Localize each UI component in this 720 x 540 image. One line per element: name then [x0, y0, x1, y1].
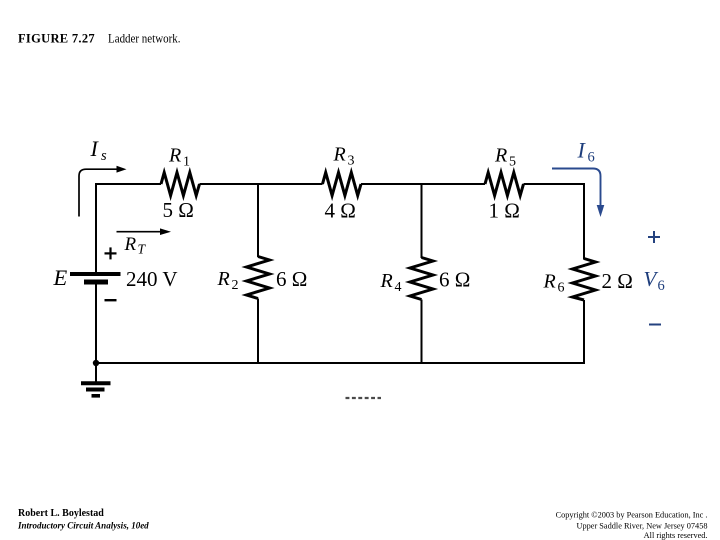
label I6 — [577, 138, 595, 166]
V6 plus sign — [648, 231, 660, 243]
label R1 — [168, 145, 190, 170]
label R2 — [217, 268, 239, 293]
svg-text:6: 6 — [658, 278, 665, 294]
label R3 — [333, 144, 355, 169]
wire R2 branch upper — [257, 183, 259, 257]
value 6 ohm R2 — [276, 267, 307, 291]
label R6 — [543, 271, 565, 296]
resistor R3 — [323, 173, 362, 196]
value 4 ohm — [325, 199, 356, 223]
label RT — [124, 234, 147, 257]
svg-text:4: 4 — [395, 280, 402, 295]
node ground junction dot — [93, 360, 99, 366]
current arrow Is — [79, 166, 127, 217]
svg-text:6: 6 — [588, 150, 595, 166]
value 6 ohm R4 — [439, 268, 470, 292]
svg-text:R: R — [124, 234, 137, 255]
svg-text:R: R — [494, 145, 507, 167]
resistor R2 — [247, 257, 270, 299]
svg-text:R: R — [168, 145, 181, 167]
battery E short plate — [84, 280, 108, 285]
svg-text:1: 1 — [183, 155, 190, 170]
wire top rail segment R1-R3 — [200, 183, 323, 185]
ground — [81, 363, 111, 396]
value 1 ohm — [489, 199, 520, 223]
svg-text:Upper Saddle River, New Jersey: Upper Saddle River, New Jersey 07458 — [576, 522, 707, 531]
svg-text:5: 5 — [509, 155, 516, 170]
wire top rail left segment — [95, 183, 161, 185]
svg-text:R: R — [543, 271, 556, 293]
svg-text:FIGURE 7.27Ladder network.: FIGURE 7.27Ladder network. — [18, 32, 181, 46]
svg-text:V: V — [644, 267, 659, 291]
svg-text:5 Ω: 5 Ω — [163, 198, 194, 222]
wire top rail right segment — [524, 183, 586, 185]
value 5 ohm — [163, 198, 194, 222]
svg-text:All rights reserved.: All rights reserved. — [644, 531, 708, 540]
svg-text:2: 2 — [232, 278, 239, 293]
svg-text:3: 3 — [348, 154, 355, 169]
svg-text:Robert L. Boylestad: Robert L. Boylestad — [18, 508, 104, 519]
battery E long plate — [70, 272, 121, 276]
label Is — [90, 136, 108, 164]
svg-text:Introductory Circuit Analysis,: Introductory Circuit Analysis, 10ed — [17, 521, 149, 531]
svg-text:4 Ω: 4 Ω — [325, 199, 356, 223]
battery plus sign — [105, 247, 117, 259]
wire right rail lower — [583, 300, 585, 364]
footer copyright — [556, 511, 708, 540]
current arrow I6 — [552, 169, 604, 218]
wire right rail upper — [583, 183, 585, 260]
svg-text:I: I — [577, 138, 587, 163]
svg-text:6 Ω: 6 Ω — [439, 268, 470, 292]
label R5 — [494, 145, 516, 170]
resistor R1 — [161, 173, 200, 196]
arrow RT — [117, 228, 172, 235]
svg-text:R: R — [333, 144, 346, 166]
label V6 — [644, 267, 665, 294]
resistor R6 — [573, 259, 596, 301]
wire R4 branch lower — [421, 300, 423, 365]
svg-text:6: 6 — [558, 281, 565, 296]
svg-text:R: R — [217, 268, 230, 290]
wire bottom rail — [95, 362, 585, 364]
wire left rail lower — [95, 285, 97, 365]
svg-text:E: E — [53, 265, 68, 290]
label R4 — [380, 270, 402, 295]
svg-text:2 Ω: 2 Ω — [602, 269, 633, 293]
svg-text:T: T — [138, 242, 147, 257]
value 240 V — [126, 267, 178, 291]
V6 minus sign — [649, 324, 661, 326]
dashed continuation mark — [346, 397, 382, 399]
svg-text:I: I — [90, 136, 100, 161]
resistor R5 — [485, 173, 524, 196]
battery minus sign — [105, 299, 117, 301]
label E — [53, 265, 68, 290]
wire R2 branch lower — [257, 299, 259, 365]
wire R4 branch upper — [421, 183, 423, 258]
svg-text:1 Ω: 1 Ω — [489, 199, 520, 223]
footer author — [17, 508, 149, 531]
resistor R4 — [410, 258, 433, 300]
figure title — [18, 32, 181, 46]
svg-text:6 Ω: 6 Ω — [276, 267, 307, 291]
wire top rail segment R3-R5 — [361, 183, 485, 185]
wire left rail upper — [95, 183, 97, 273]
svg-text:R: R — [380, 270, 393, 292]
svg-text:Copyright ©2003 by Pearson Edu: Copyright ©2003 by Pearson Education, In… — [556, 511, 708, 520]
value 2 ohm — [602, 269, 633, 293]
svg-text:s: s — [101, 148, 107, 164]
svg-text:240 V: 240 V — [126, 267, 178, 291]
